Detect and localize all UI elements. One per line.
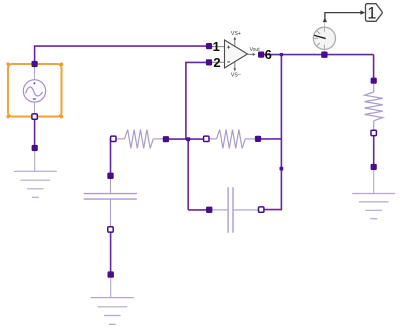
AC voltage source V1 (selected, orange highlight) <box>7 63 64 119</box>
wire op-amp pin 2 to feedback node vertical <box>186 62 209 140</box>
svg-text:VS−: VS− <box>231 72 241 78</box>
AC source bottom port (open) <box>32 114 37 119</box>
node T junction dot at output branch <box>280 53 283 56</box>
ground G2 below C1 <box>91 271 134 324</box>
capacitor C1 (series input cap, vertical chain) <box>84 179 137 227</box>
wire C1 bottom to middle ground <box>110 231 112 275</box>
R3 top port (filled) <box>371 78 377 84</box>
svg-text:VS+: VS+ <box>231 31 241 37</box>
sensor junction port on output wire <box>321 52 327 58</box>
AC source top port (connected) <box>32 61 38 67</box>
C1 bottom port (open) <box>108 227 113 232</box>
capacitor C2 (feedback cap, horizontal row) <box>213 187 259 232</box>
op-amp pin 1 port square <box>206 43 212 49</box>
wire op-amp output row <box>261 54 374 56</box>
wire R3 bottom to right ground <box>373 135 375 167</box>
wire R1 left port down to capacitor C1 <box>111 139 114 176</box>
C1 top port (filled) <box>107 173 113 179</box>
wire feedback vertical down to capacitor row <box>187 139 189 210</box>
wire AC source bottom to ground <box>34 117 36 148</box>
svg-text:2: 2 <box>213 55 220 70</box>
wire from AC source top to op-amp pin 1 <box>35 46 209 64</box>
wire output node down to resistor R3 <box>373 55 375 81</box>
R1 right port (filled) <box>163 136 169 142</box>
ground G1 below AC source <box>14 145 57 197</box>
C2 left port (filled) <box>206 207 212 213</box>
resistor R1 <box>116 130 163 149</box>
outport block 1 <box>366 4 383 23</box>
node junction dot at resistor row <box>186 137 190 141</box>
op-amp U1 <box>212 37 256 71</box>
resistor R3 (load, vertical) <box>365 84 383 130</box>
wire capacitor C2 right up to output node <box>264 55 282 210</box>
voltage sensor VM1 (gauge) <box>313 22 335 52</box>
ground G3 right <box>352 164 395 219</box>
R1 left port (open) <box>111 136 116 141</box>
R2 left port (open) <box>204 136 209 141</box>
svg-text:6: 6 <box>265 47 272 62</box>
wire R2 right port to feedback vertical <box>261 138 281 140</box>
op-amp pin 2 port square <box>206 59 212 65</box>
wire resistor row R1 to R2 <box>167 138 205 140</box>
resistor R2 <box>209 130 255 149</box>
C2 right port (open) <box>259 207 264 212</box>
R3 bottom port (open) <box>371 130 376 135</box>
R2 right port (filled) <box>255 136 261 142</box>
op-amp output port square <box>258 52 264 58</box>
junction nub on feedback vertical <box>280 167 284 171</box>
physical signal wire sensor to outport <box>323 10 365 22</box>
svg-text:1: 1 <box>213 39 220 54</box>
svg-text:1: 1 <box>367 5 376 23</box>
wire capacitor C2 left <box>188 209 206 211</box>
